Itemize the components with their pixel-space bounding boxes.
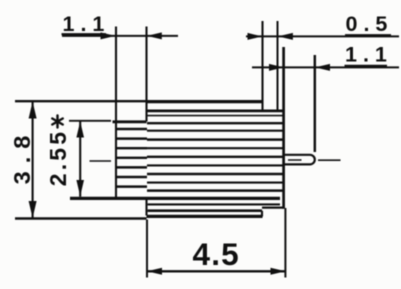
- dim 1.1 top-left: dimension line: [62, 35, 178, 37]
- dim 3.8: top arrow: [29, 102, 37, 119]
- left shaft top edge: [113, 120, 147, 123]
- dim 3.8: bottom arrow: [29, 201, 37, 218]
- svg-text:3.8: 3.8: [9, 128, 35, 185]
- collar left face top + ext line: [145, 27, 147, 122]
- svg-text:2.55: 2.55: [45, 129, 71, 187]
- centerline right segment: [318, 159, 341, 161]
- dim 1.1 right: dimension line: [252, 66, 399, 68]
- dim 4.5: left extension line: [146, 220, 148, 278]
- knurled body bottom edge: [147, 215, 263, 218]
- dim 1.1 right: left arrow: [269, 64, 284, 71]
- body right face / 1.1 left ext: [282, 47, 285, 209]
- dim 2.55: top arrow: [76, 121, 84, 137]
- dim 2.55: bottom arrow: [76, 180, 84, 196]
- dim 1.1 top-left: left arrow: [101, 32, 116, 39]
- dim 3.8: dimension line: [32, 101, 34, 219]
- collar left face bottom: [145, 200, 147, 216]
- dim 2.55: asterisk mark: [52, 116, 62, 128]
- pin: [284, 155, 315, 165]
- dim 2.55: dimension line: [79, 121, 81, 197]
- dim 1.1 right: underline: [345, 65, 388, 67]
- knurled body top edge: [147, 100, 263, 103]
- knurled body stripes: [147, 111, 284, 211]
- dim 4.5: right arrow: [271, 268, 286, 275]
- dim 0.5: right arrow: [278, 33, 293, 40]
- collar right face bottom: [261, 211, 263, 217]
- dim 0.5: left arrow: [248, 33, 263, 40]
- pin tip extension line (1.1 right): [314, 55, 316, 152]
- dim 1.1 right: right arrow: [315, 64, 330, 71]
- dim 3.8: bottom extension line: [15, 217, 147, 219]
- dim 1.1 top-left: underline: [62, 33, 107, 35]
- dim 0.5: underline: [345, 34, 391, 36]
- svg-text:0.5: 0.5: [346, 12, 394, 36]
- left shaft thread stripes: [116, 129, 147, 187]
- centerline left segment: [90, 160, 112, 162]
- dim 1.1 top-left: right arrow: [147, 32, 162, 39]
- left shaft bottom edge band (with 2.55 ext): [70, 197, 280, 200]
- collar right face top: [261, 21, 263, 111]
- left shaft face: [115, 27, 117, 199]
- svg-text:4.5: 4.5: [193, 236, 240, 272]
- centerline dash inside pin: [288, 159, 302, 161]
- svg-text:1.1: 1.1: [63, 12, 111, 36]
- dim 0.5: dimension line: [246, 35, 399, 37]
- dim 4.5: right extension line: [284, 208, 286, 278]
- 0.5 right extension line: [277, 21, 279, 110]
- dim 3.8: top extension line: [15, 100, 147, 102]
- dim 4.5: left arrow: [147, 268, 162, 275]
- dim 2.55: top extension line: [69, 120, 111, 122]
- dim 4.5: dimension line: [147, 270, 286, 272]
- svg-text:1.1: 1.1: [345, 43, 393, 67]
